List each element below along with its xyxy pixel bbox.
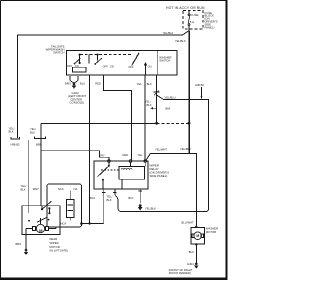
svg-text:YEL/WHT: YEL/WHT xyxy=(155,148,167,152)
svg-text:FUSE: FUSE xyxy=(191,13,199,17)
svg-text:NCA: NCA xyxy=(58,187,64,191)
svg-text:YEL: YEL xyxy=(138,153,144,157)
svg-text:G404: G404 xyxy=(187,262,194,266)
svg-text:NCA: NCA xyxy=(61,221,67,225)
svg-text:OFF: OFF xyxy=(103,64,109,68)
svg-text:BLK: BLK xyxy=(189,250,194,254)
svg-text:BLK: BLK xyxy=(30,130,35,134)
svg-text:5 A: 5 A xyxy=(190,20,194,24)
svg-text:ON: ON xyxy=(148,64,152,68)
svg-text:RED: RED xyxy=(123,153,129,157)
svg-text:BLK: BLK xyxy=(107,198,112,202)
svg-text:OFF: OFF xyxy=(67,64,73,68)
svg-text:CONSOLE): CONSOLE) xyxy=(70,101,85,105)
svg-text:SWITCH: SWITCH xyxy=(159,58,170,62)
svg-text:FRONT FENDER): FRONT FENDER) xyxy=(169,271,191,275)
svg-text:M: M xyxy=(196,234,199,238)
svg-text:YEL/BLK: YEL/BLK xyxy=(175,39,186,43)
svg-text:PANEL): PANEL) xyxy=(205,25,215,29)
svg-text:YEL/BLK: YEL/BLK xyxy=(163,31,174,35)
svg-text:YEL/BLK: YEL/BLK xyxy=(180,147,191,151)
svg-text:OFF: OFF xyxy=(128,65,134,69)
svg-text:BLK: BLK xyxy=(9,130,14,134)
svg-text:B64: B64 xyxy=(166,107,171,111)
svg-text:B98: B98 xyxy=(36,142,41,146)
svg-text:SWITCH: SWITCH xyxy=(53,51,64,55)
svg-text:YEL/BLK: YEL/BLK xyxy=(145,206,156,210)
svg-text:BLK: BLK xyxy=(21,187,26,191)
svg-text:BLU: BLU xyxy=(80,82,85,86)
svg-text:YEL: YEL xyxy=(137,82,142,86)
svg-text:NA: NA xyxy=(74,187,78,191)
svg-text:GRY: GRY xyxy=(99,154,105,158)
svg-text:WHT: WHT xyxy=(33,187,39,191)
svg-text:BRN: BRN xyxy=(65,82,71,86)
svg-text:SIDE PANEL): SIDE PANEL) xyxy=(150,174,168,178)
svg-text:BLK: BLK xyxy=(128,196,133,200)
svg-text:YEL/BLU: YEL/BLU xyxy=(165,96,176,100)
svg-text:RED: RED xyxy=(95,82,101,86)
svg-text:HOT IN ACCY OR RUN: HOT IN ACCY OR RUN xyxy=(166,6,205,10)
svg-text:ON: ON xyxy=(110,64,114,68)
svg-text:H98 B2: H98 B2 xyxy=(195,83,204,87)
svg-text:BLK: BLK xyxy=(147,82,152,86)
svg-text:H98-B2: H98-B2 xyxy=(11,142,21,146)
svg-text:BRN: BRN xyxy=(16,242,22,246)
svg-text:(IN LIFTGATE): (IN LIFTGATE) xyxy=(50,249,69,253)
svg-text:BLU/WHT: BLU/WHT xyxy=(182,221,194,225)
svg-text:BLU: BLU xyxy=(90,196,95,200)
svg-text:ON: ON xyxy=(75,64,79,68)
svg-text:BLK: BLK xyxy=(147,103,152,107)
svg-text:MOTOR: MOTOR xyxy=(206,230,216,234)
